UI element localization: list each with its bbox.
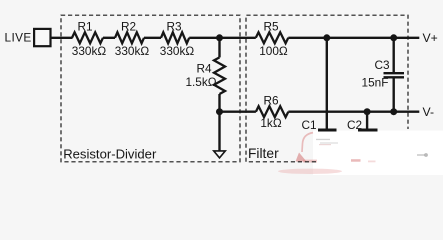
terminal box (LIVE input)	[34, 29, 50, 46]
ground symbol	[214, 151, 226, 158]
svg-text:Filter: Filter	[248, 146, 279, 161]
svg-text:100Ω: 100Ω	[259, 44, 288, 58]
enclosure: Filter dashed box	[246, 15, 408, 162]
svg-text:V-: V-	[423, 105, 435, 119]
wire: R6 to V- output (bottom rail)	[288, 110, 419, 112]
svg-text:15nF: 15nF	[362, 75, 389, 89]
svg-text:C2: C2	[347, 118, 362, 132]
svg-text:R2: R2	[121, 20, 136, 34]
capacitor C1 bottom plate	[318, 129, 337, 132]
wire: R5 to V+ output (top rail)	[288, 37, 419, 39]
capacitor C1 (wire from V+ rail down, crossing V- rail)	[326, 38, 328, 129]
wire: R2 to R3	[144, 37, 161, 39]
junction: C1 top node on V+ rail	[323, 34, 330, 41]
junction: C3 top node on V+ rail	[390, 34, 397, 41]
svg-text:330kΩ: 330kΩ	[72, 44, 107, 58]
svg-text:V+: V+	[423, 31, 438, 45]
svg-text:1.5kΩ: 1.5kΩ	[185, 75, 216, 89]
wire: bottom lead of R4 to bottom rail	[218, 94, 220, 112]
junction: R4 bottom node on bottom rail	[216, 108, 223, 115]
wire: divider node to R5	[220, 37, 256, 39]
resistor R6	[256, 106, 288, 117]
wire: R3 to divider node	[189, 37, 219, 39]
capacitor C3 top lead	[393, 38, 395, 72]
svg-text:C3: C3	[374, 58, 390, 72]
svg-text:R6: R6	[263, 93, 279, 107]
svg-text:330kΩ: 330kΩ	[160, 44, 195, 58]
svg-text:C1: C1	[301, 118, 316, 132]
enclosure: Resistor-Divider dashed box	[61, 15, 240, 162]
svg-text:R1: R1	[77, 20, 92, 34]
svg-text:R4: R4	[196, 61, 212, 75]
svg-text:LIVE: LIVE	[5, 30, 32, 44]
capacitor C2 bottom plate	[358, 129, 378, 132]
resistor R2	[115, 32, 144, 43]
wire: R1 to R2	[103, 37, 115, 39]
wire: top lead of R4	[218, 38, 220, 58]
resistor R4	[214, 57, 225, 94]
svg-text:330kΩ: 330kΩ	[115, 44, 150, 58]
svg-text:R3: R3	[166, 20, 182, 34]
junction: divider tap node	[216, 34, 223, 41]
svg-text:R5: R5	[263, 20, 279, 34]
wire: LIVE terminal to R1	[51, 37, 73, 39]
capacitor C3 bottom lead	[393, 78, 395, 111]
junction: C3 bottom node on V- rail	[390, 108, 397, 115]
resistor R5	[256, 32, 288, 43]
capacitor C2 (wire from V- rail down)	[366, 112, 368, 129]
capacitor C3 plates	[384, 73, 405, 77]
wire: bottom rail from R4 node to R6	[220, 110, 256, 112]
junction: C2 node on V- rail	[364, 108, 371, 115]
resistor R1	[72, 32, 103, 43]
svg-text:Resistor-Divider: Resistor-Divider	[63, 147, 157, 162]
resistor R3	[161, 32, 189, 43]
svg-text:1kΩ: 1kΩ	[260, 116, 281, 130]
wire: node down to ground	[218, 112, 220, 151]
